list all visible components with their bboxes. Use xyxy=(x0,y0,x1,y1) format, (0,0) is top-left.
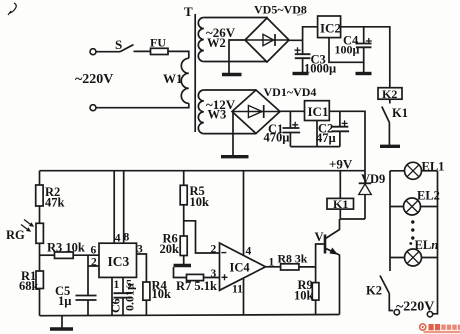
svg-text:10k: 10k xyxy=(294,289,314,303)
svg-text:0.01µ: 0.01µ xyxy=(123,283,137,311)
svg-text:8: 8 xyxy=(124,232,130,244)
svg-text:K1: K1 xyxy=(333,197,348,211)
svg-text:10k: 10k xyxy=(152,287,172,301)
svg-text:C6: C6 xyxy=(109,298,123,313)
svg-text:47µ: 47µ xyxy=(316,131,336,145)
wire bridge out to C3 node and IC2 xyxy=(289,27,318,41)
wire W2 bottom to bridge xyxy=(204,61,267,64)
wire W2 top to bridge xyxy=(204,17,267,20)
relay coil K2 xyxy=(378,87,402,101)
svg-text:10k: 10k xyxy=(190,195,210,209)
wire IC4 out to R8 xyxy=(266,266,281,268)
wire IC3 pin 8 to rail xyxy=(123,171,125,244)
scan artifact squiggle xyxy=(8,3,16,15)
svg-text:68k: 68k xyxy=(19,279,39,293)
resistor R3 xyxy=(55,252,100,258)
transistor V xyxy=(325,219,340,315)
winding W1 xyxy=(181,58,189,103)
wire IC1 output to +9V rail xyxy=(329,111,365,170)
wire RG to R1 and R3 node xyxy=(39,243,41,271)
ground under K1 xyxy=(380,145,400,148)
capacitor C4 xyxy=(356,27,372,73)
resistor R7 xyxy=(187,274,204,280)
svg-text:2: 2 xyxy=(211,244,217,256)
IC3 timer xyxy=(99,243,137,277)
wire +9V rail xyxy=(40,170,366,172)
wire switch to fuse xyxy=(134,50,151,52)
wire bridge out to IC1 xyxy=(280,110,305,112)
svg-text:1µ: 1µ xyxy=(58,294,71,308)
wire fuse to W1 xyxy=(168,51,189,58)
svg-text:470µ: 470µ xyxy=(264,131,290,145)
svg-text:K2: K2 xyxy=(382,87,397,101)
terminal lamp left xyxy=(394,310,399,315)
regulator IC2 xyxy=(318,16,341,38)
resistor R4 xyxy=(143,282,150,315)
svg-text:FU: FU xyxy=(150,36,166,50)
ground under C4 xyxy=(356,72,372,75)
regulator IC1 xyxy=(305,101,330,121)
wire bridge left vertex to ground xyxy=(232,112,234,156)
winding W3 xyxy=(198,90,203,134)
svg-text:1: 1 xyxy=(114,279,120,291)
wire bridge left vertex to ground xyxy=(229,40,245,73)
svg-text:IC2: IC2 xyxy=(320,21,341,36)
ground under C3 xyxy=(293,72,309,75)
capacitor C2 xyxy=(332,111,350,146)
bridge rectifier VD5~VD8 xyxy=(245,18,289,62)
resistor R9 xyxy=(312,267,319,315)
svg-text:K1: K1 xyxy=(392,106,408,120)
resistor R2 xyxy=(36,171,43,224)
fuse FU xyxy=(151,48,169,54)
svg-text:RG: RG xyxy=(6,228,25,242)
svg-text:V: V xyxy=(315,230,324,244)
lamp EL2 xyxy=(390,198,438,215)
watermark logo circle xyxy=(420,324,426,330)
ground under R6 xyxy=(174,264,192,267)
resistor R5 xyxy=(180,171,187,236)
svg-text:K2: K2 xyxy=(366,284,382,298)
wire C1 C2 ground rail xyxy=(290,146,340,148)
svg-text:~220V: ~220V xyxy=(396,300,434,315)
terminal upper AC input xyxy=(90,49,96,55)
capacitor C1 xyxy=(283,111,301,146)
wire IC2 ground pin xyxy=(329,38,364,63)
wire K1 bottom node to VD9 xyxy=(340,218,366,220)
capacitor C5 xyxy=(76,296,97,316)
wire node to R3 xyxy=(40,254,55,256)
wire IC3 pin 1 to ground rail xyxy=(111,277,113,315)
svg-text:VD5~VD8: VD5~VD8 xyxy=(254,3,307,17)
svg-text:R3 10k: R3 10k xyxy=(47,241,85,255)
wire IC3 pin 4 to rail xyxy=(113,171,115,244)
switch K2 contact xyxy=(380,276,393,311)
svg-text:+9V: +9V xyxy=(329,157,353,172)
svg-text:W3: W3 xyxy=(208,108,227,122)
svg-text:VD1~VD4: VD1~VD4 xyxy=(264,85,317,99)
svg-text:S: S xyxy=(115,37,122,52)
lamp EL1 xyxy=(390,162,438,179)
svg-text:100µ: 100µ xyxy=(335,43,360,57)
artifact near IC2 xyxy=(297,14,303,16)
svg-text:R8 3k: R8 3k xyxy=(278,252,308,266)
wire R7 to ground and pin 3 xyxy=(174,267,220,278)
wire IC4 pin 11 to ground rail xyxy=(243,278,245,314)
resistor R6 xyxy=(180,236,187,265)
wire R5 R6 node to IC4 pin 2 xyxy=(184,221,220,253)
lamp ELn xyxy=(390,249,438,266)
wire IC1 ground pin xyxy=(316,121,318,147)
watermark text row 2 xyxy=(424,331,460,333)
svg-text:4: 4 xyxy=(246,246,252,258)
svg-text:IC4: IC4 xyxy=(230,261,251,275)
winding W2 xyxy=(198,18,204,62)
svg-text:W2: W2 xyxy=(207,36,226,50)
ground under W2 bridge xyxy=(222,73,242,76)
switch S xyxy=(120,45,134,52)
svg-text:IC1: IC1 xyxy=(308,104,329,119)
resistor R8 xyxy=(281,264,316,270)
wire W3 top to bridge xyxy=(204,89,256,91)
svg-text:20k: 20k xyxy=(160,242,180,256)
wire W3 bottom to bridge xyxy=(204,133,256,135)
diode VD9 xyxy=(359,171,372,219)
capacitor C6 on pin 5 xyxy=(114,277,133,315)
ground bottom left xyxy=(50,316,73,329)
lamp circuit left rail xyxy=(389,171,391,271)
ground under W3 bridge xyxy=(221,155,249,158)
svg-text:IC3: IC3 xyxy=(108,254,130,269)
wire IC4 pin 4 to rail xyxy=(243,171,245,256)
wire base node xyxy=(316,244,324,267)
resistor R1 xyxy=(36,271,43,316)
transformer core xyxy=(194,14,196,132)
wire IC3 pin 3 out xyxy=(137,254,147,282)
lamp circuit right rail xyxy=(433,171,438,314)
terminal lamp right xyxy=(427,312,432,317)
svg-text:1000µ: 1000µ xyxy=(304,62,336,76)
wire ground rail bottom xyxy=(40,315,340,316)
svg-text:~220V: ~220V xyxy=(75,72,113,87)
svg-text:R7 5.1k: R7 5.1k xyxy=(176,279,217,293)
switch K1 contact xyxy=(382,99,390,145)
terminal lower AC input xyxy=(90,105,96,111)
svg-text:EL1: EL1 xyxy=(422,160,445,174)
svg-text:47k: 47k xyxy=(45,196,65,210)
svg-text:W1: W1 xyxy=(163,71,183,86)
photoresistor RG xyxy=(21,220,43,244)
wire pins 2-6 tie down to C5 xyxy=(88,255,99,295)
op-amp IC4 xyxy=(220,243,266,290)
svg-text:VD9: VD9 xyxy=(361,172,385,186)
svg-text:4: 4 xyxy=(115,232,121,244)
relay coil K1 xyxy=(327,171,354,219)
svg-text:T: T xyxy=(184,4,193,19)
svg-text:EL2: EL2 xyxy=(417,189,440,203)
watermark text row 1 xyxy=(429,324,460,330)
dots ellipsis xyxy=(409,220,414,245)
svg-text:6: 6 xyxy=(91,245,97,257)
svg-text:3: 3 xyxy=(137,244,143,256)
svg-text:2: 2 xyxy=(91,257,97,269)
wire terminal to switch xyxy=(96,51,120,53)
svg-text:11: 11 xyxy=(232,284,243,296)
wire IC2 output to K2 xyxy=(341,27,390,88)
bridge rectifier VD1~VD4 xyxy=(232,90,280,134)
wire W1 bottom to lower terminal xyxy=(96,103,189,107)
capacitor C3 xyxy=(295,40,311,72)
